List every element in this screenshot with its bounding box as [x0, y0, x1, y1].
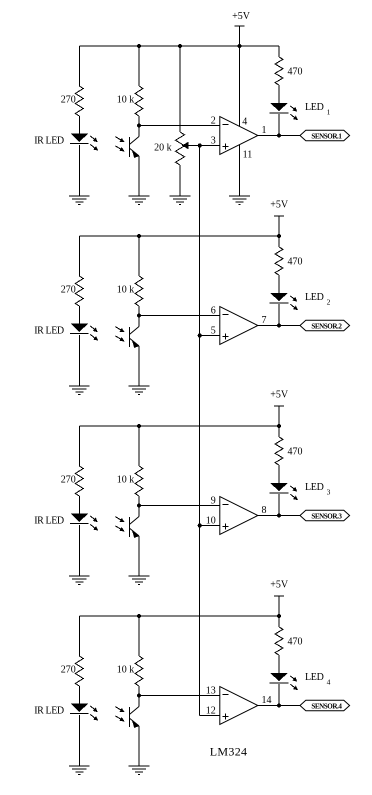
svg-text:10 k: 10 k — [117, 665, 135, 676]
svg-text:LED: LED — [305, 672, 324, 683]
svg-text:470: 470 — [288, 446, 303, 457]
svg-text:10 k: 10 k — [117, 95, 135, 106]
svg-text:4: 4 — [327, 678, 331, 687]
svg-text:11: 11 — [243, 149, 253, 160]
svg-text:SENSOR.3: SENSOR.3 — [311, 512, 342, 520]
svg-text:IR LED: IR LED — [34, 326, 64, 337]
svg-text:IR LED: IR LED — [34, 706, 64, 717]
svg-text:20 k: 20 k — [154, 142, 172, 153]
svg-text:8: 8 — [262, 505, 267, 516]
svg-text:2: 2 — [327, 298, 331, 307]
svg-text:270: 270 — [61, 475, 76, 486]
svg-text:IR LED: IR LED — [34, 516, 64, 527]
svg-text:13: 13 — [206, 686, 216, 697]
svg-text:+5V: +5V — [270, 579, 289, 590]
svg-text:4: 4 — [242, 116, 247, 127]
svg-text:270: 270 — [61, 285, 76, 296]
svg-text:9: 9 — [211, 496, 216, 507]
svg-text:10 k: 10 k — [117, 285, 135, 296]
svg-text:+5V: +5V — [232, 11, 251, 22]
svg-text:470: 470 — [288, 256, 303, 267]
svg-text:470: 470 — [288, 66, 303, 77]
svg-text:SENSOR.4: SENSOR.4 — [311, 702, 342, 710]
svg-text:14: 14 — [262, 695, 272, 706]
svg-text:LED: LED — [305, 102, 324, 113]
svg-text:270: 270 — [61, 95, 76, 106]
svg-text:270: 270 — [61, 665, 76, 676]
svg-text:6: 6 — [211, 306, 216, 317]
svg-text:LED: LED — [305, 292, 324, 303]
svg-text:LM324: LM324 — [210, 744, 248, 758]
svg-text:SENSOR.2: SENSOR.2 — [311, 322, 342, 330]
svg-text:IR LED: IR LED — [34, 136, 64, 147]
svg-text:SENSOR.1: SENSOR.1 — [311, 132, 342, 140]
svg-text:3: 3 — [327, 488, 331, 497]
svg-text:1: 1 — [262, 125, 267, 136]
svg-text:+5V: +5V — [270, 389, 289, 400]
svg-text:+5V: +5V — [270, 199, 289, 210]
svg-text:470: 470 — [288, 636, 303, 647]
svg-text:1: 1 — [327, 108, 331, 117]
svg-text:10 k: 10 k — [117, 475, 135, 486]
svg-text:7: 7 — [262, 315, 267, 326]
svg-text:LED: LED — [305, 482, 324, 493]
svg-text:2: 2 — [211, 116, 216, 127]
